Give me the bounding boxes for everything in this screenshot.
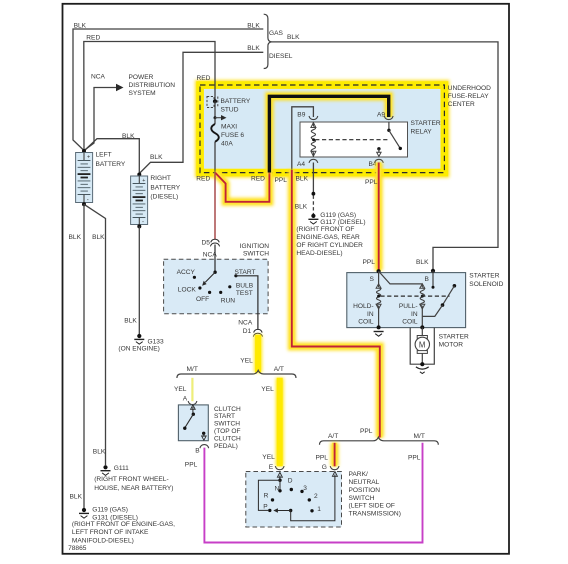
- svg-text:78865: 78865: [68, 545, 87, 552]
- svg-text:BATTERY: BATTERY: [150, 184, 180, 191]
- clutch A terminal arc: [188, 401, 197, 405]
- svg-text:N: N: [275, 486, 280, 493]
- park/neutral internals: [258, 472, 337, 521]
- svg-text:BLK: BLK: [247, 23, 260, 30]
- svg-text:+: +: [87, 155, 90, 161]
- wire NCA to power distribution: [84, 73, 124, 150]
- wire PPL from relay B9 down through box: [275, 107, 380, 438]
- svg-text:BLK: BLK: [416, 259, 429, 266]
- svg-text:FUSE 6: FUSE 6: [221, 132, 244, 139]
- svg-text:SWITCH: SWITCH: [243, 250, 269, 257]
- svg-text:HOLD-: HOLD-: [353, 303, 374, 310]
- svg-text:D1: D1: [243, 328, 252, 335]
- svg-text:RIGHT: RIGHT: [150, 175, 171, 182]
- wire RED left battery to battery stud: [84, 35, 215, 151]
- wire RED fuse box to ignition switch D5: [214, 173, 216, 240]
- wire BLK brace to starter solenoid B: [271, 34, 498, 270]
- svg-text:BULB: BULB: [236, 282, 254, 289]
- svg-text:LEFT FRONT OF INTAKE: LEFT FRONT OF INTAKE: [72, 529, 149, 536]
- park/neutral G terminal arc: [330, 466, 339, 470]
- ground G111: [94, 465, 173, 492]
- svg-text:P: P: [263, 504, 268, 511]
- svg-text:M: M: [419, 340, 426, 349]
- maxi fuse 6: [211, 118, 244, 173]
- brace gas/diesel: [264, 14, 293, 68]
- svg-text:START: START: [214, 413, 235, 420]
- svg-text:PULL-: PULL-: [399, 303, 418, 310]
- svg-text:3: 3: [303, 485, 307, 492]
- svg-text:G111: G111: [114, 465, 129, 472]
- svg-text:G117 (DIESEL): G117 (DIESEL): [320, 219, 365, 226]
- battery stud: [207, 97, 251, 114]
- relay dashed link: [315, 139, 390, 141]
- wire YEL D1 to M/T A/T brace: [240, 335, 258, 373]
- svg-text:OFF: OFF: [196, 296, 209, 303]
- svg-text:(ON ENGINE): (ON ENGINE): [118, 346, 159, 353]
- svg-text:BLK: BLK: [122, 133, 135, 140]
- svg-text:LEFT: LEFT: [96, 151, 112, 158]
- svg-text:G119 (GAS): G119 (GAS): [92, 506, 128, 513]
- svg-text:S: S: [370, 276, 375, 283]
- wire BLK left battery to G119/G131 ground: [69, 204, 85, 508]
- starter motor ground: [416, 367, 429, 374]
- svg-text:IN: IN: [367, 311, 374, 318]
- svg-text:RUN: RUN: [221, 298, 236, 305]
- svg-text:BLK: BLK: [296, 175, 309, 182]
- solenoid B terminal: [425, 269, 436, 283]
- svg-text:-: -: [142, 219, 144, 225]
- svg-text:POSITION: POSITION: [349, 487, 381, 494]
- svg-text:D: D: [288, 478, 293, 485]
- park/neutral E terminal arc: [275, 466, 284, 470]
- svg-text:NEUTRAL: NEUTRAL: [349, 479, 380, 486]
- park/neutral position switch box: [246, 471, 401, 527]
- svg-text:(TOP OF: (TOP OF: [214, 428, 241, 435]
- svg-text:PPL: PPL: [360, 428, 373, 435]
- ground G119 (GAS) G117 (DIESEL): [296, 212, 365, 257]
- label POWER DISTRIBUTION SYSTEM: [129, 74, 176, 97]
- svg-text:UNDERHOOD: UNDERHOOD: [448, 85, 491, 92]
- svg-text:OF RIGHT CYLINDER: OF RIGHT CYLINDER: [296, 242, 363, 249]
- svg-text:YEL: YEL: [240, 358, 253, 365]
- stud output arrow: [214, 101, 227, 120]
- underhood fuse-relay center box: [200, 85, 444, 173]
- svg-text:POWER: POWER: [129, 74, 154, 81]
- svg-text:HOUSE, NEAR BATTERY): HOUSE, NEAR BATTERY): [94, 485, 173, 492]
- svg-text:SWITCH: SWITCH: [214, 421, 240, 428]
- svg-text:NCA: NCA: [91, 73, 106, 80]
- svg-text:PPL: PPL: [363, 259, 376, 266]
- svg-text:CLUTCH: CLUTCH: [214, 435, 241, 442]
- svg-text:FUSE-RELAY: FUSE-RELAY: [448, 93, 490, 100]
- solenoid dashed link: [380, 295, 449, 297]
- svg-text:A9: A9: [377, 112, 385, 119]
- right battery (diesel): [131, 173, 181, 229]
- svg-text:STUD: STUD: [221, 106, 239, 113]
- connector D5: [202, 239, 220, 258]
- svg-text:+: +: [142, 178, 145, 184]
- wire BLK right battery to G133 ground: [124, 226, 139, 334]
- svg-text:STARTER: STARTER: [469, 273, 499, 280]
- svg-text:A4: A4: [297, 161, 305, 168]
- wire PPL A/T branch to park/neutral G: [316, 443, 335, 471]
- brace M/T A/T (ignition output split): [177, 366, 296, 378]
- svg-text:B9: B9: [297, 112, 305, 119]
- svg-text:B: B: [425, 276, 430, 283]
- svg-text:R: R: [264, 493, 269, 500]
- solenoid contact switch: [422, 271, 456, 317]
- svg-text:BLK: BLK: [93, 448, 106, 455]
- svg-text:A: A: [183, 395, 188, 402]
- connector D1: [243, 328, 263, 337]
- svg-text:D5: D5: [202, 239, 211, 246]
- svg-text:CENTER: CENTER: [448, 101, 475, 108]
- svg-text:A/T: A/T: [328, 433, 338, 440]
- svg-text:PPL: PPL: [365, 179, 378, 186]
- svg-text:MANIFOLD-DIESEL): MANIFOLD-DIESEL): [72, 537, 134, 544]
- svg-text:STARTER: STARTER: [411, 120, 441, 127]
- wire YEL A/T branch to park/neutral E: [261, 378, 279, 471]
- svg-text:IGNITION: IGNITION: [240, 243, 270, 250]
- svg-text:G133: G133: [148, 338, 164, 345]
- relay terminal B9: [297, 112, 318, 120]
- wire BLK left battery to G111 ground: [84, 204, 106, 465]
- svg-text:PEDAL): PEDAL): [214, 443, 238, 450]
- left battery: [76, 149, 126, 206]
- svg-text:ENGINE-GAS, REAR: ENGINE-GAS, REAR: [296, 234, 360, 241]
- relay coil: [311, 122, 316, 157]
- brace A/T M/T (ppl merge): [320, 433, 439, 445]
- svg-text:PPL: PPL: [275, 177, 288, 184]
- svg-text:BLK: BLK: [74, 23, 87, 30]
- svg-text:BLK: BLK: [92, 234, 105, 241]
- border frame: [63, 4, 510, 554]
- svg-text:DISTRIBUTION: DISTRIBUTION: [129, 82, 176, 89]
- svg-text:CLUTCH: CLUTCH: [214, 406, 241, 413]
- svg-text:RED: RED: [251, 175, 265, 182]
- svg-text:YEL: YEL: [262, 454, 275, 461]
- svg-text:START: START: [235, 269, 256, 276]
- svg-text:M/T: M/T: [414, 433, 425, 440]
- solenoid hold-in coil: [353, 271, 381, 329]
- svg-text:MOTOR: MOTOR: [439, 342, 464, 349]
- svg-text:STARTER: STARTER: [439, 334, 469, 341]
- svg-text:(RIGHT FRONT OF ENGINE-GAS,: (RIGHT FRONT OF ENGINE-GAS,: [72, 521, 175, 528]
- svg-text:TRANSMISSION): TRANSMISSION): [349, 511, 401, 518]
- svg-text:(DIESEL): (DIESEL): [150, 194, 178, 201]
- svg-text:PPL: PPL: [316, 455, 329, 462]
- svg-text:BLK: BLK: [247, 45, 260, 52]
- svg-text:NCA: NCA: [238, 320, 253, 327]
- svg-text:RED: RED: [197, 75, 211, 82]
- relay switch contacts: [377, 122, 402, 156]
- solenoid S ground: [374, 332, 384, 337]
- svg-text:-: -: [87, 198, 89, 204]
- svg-text:2: 2: [314, 493, 318, 500]
- svg-text:COIL: COIL: [402, 318, 418, 325]
- svg-text:SYSTEM: SYSTEM: [129, 90, 156, 97]
- svg-text:M/T: M/T: [187, 366, 198, 373]
- svg-text:YEL: YEL: [174, 386, 187, 393]
- svg-text:SWITCH: SWITCH: [349, 495, 375, 502]
- ground G119/G131: [72, 506, 175, 544]
- solenoid S terminal: [370, 269, 381, 283]
- wire BLK left battery to gas brace: [73, 23, 263, 151]
- svg-text:COIL: COIL: [358, 318, 374, 325]
- relay terminal A4: [297, 159, 318, 168]
- relay terminal A9: [377, 112, 393, 120]
- svg-text:BATTERY: BATTERY: [96, 161, 126, 168]
- svg-text:A/T: A/T: [274, 366, 284, 373]
- label UNDERHOOD FUSE-RELAY CENTER: [448, 85, 491, 108]
- svg-text:(LEFT SIDE OF: (LEFT SIDE OF: [349, 503, 395, 510]
- svg-text:PPL: PPL: [185, 462, 198, 469]
- svg-text:MAXI: MAXI: [221, 124, 237, 131]
- svg-text:IN: IN: [411, 311, 418, 318]
- wire BLK jumper left battery to right battery: [85, 133, 140, 173]
- relay terminal B4: [369, 159, 384, 168]
- ignition switch internals: [177, 245, 256, 305]
- svg-text:BLK: BLK: [287, 34, 300, 41]
- wire PPL relay B4 to solenoid S: [363, 163, 379, 271]
- starter motor: [410, 327, 469, 366]
- svg-text:RED: RED: [196, 175, 210, 182]
- wire PPL clutch B down around to M/T merge: [185, 443, 423, 543]
- svg-text:B: B: [195, 448, 200, 455]
- svg-text:PPL: PPL: [408, 455, 421, 462]
- starter relay: [300, 120, 441, 157]
- ignition switch box: [164, 243, 270, 314]
- svg-text:BLK: BLK: [150, 154, 163, 161]
- ground G133: [118, 334, 164, 353]
- svg-text:SOLENOID: SOLENOID: [469, 281, 503, 288]
- svg-text:TEST: TEST: [236, 290, 253, 297]
- thick black feed wire to relay A9: [269, 96, 388, 172]
- wire BLK relay A4 to ground G119/G117: [295, 163, 316, 215]
- starter solenoid box: [347, 273, 504, 328]
- highlighted red jog below fuse box: [196, 173, 269, 202]
- svg-text:(RIGHT FRONT OF: (RIGHT FRONT OF: [296, 226, 354, 233]
- svg-text:1: 1: [317, 506, 321, 513]
- svg-text:(RIGHT FRONT WHEEL-: (RIGHT FRONT WHEEL-: [94, 476, 169, 483]
- clutch start switch: [178, 405, 241, 450]
- wire YEL M/T branch to clutch switch A: [174, 378, 192, 403]
- solenoid pull-in coil: [379, 271, 425, 329]
- svg-text:GAS: GAS: [269, 30, 284, 37]
- svg-text:BLK: BLK: [124, 318, 137, 325]
- svg-text:YEL: YEL: [261, 386, 274, 393]
- svg-text:RED: RED: [86, 35, 100, 42]
- wire NCA start output to D1: [236, 276, 258, 330]
- svg-text:HEAD-DIESEL): HEAD-DIESEL): [296, 250, 342, 257]
- clutch B terminal arc: [195, 445, 208, 455]
- svg-text:BLK: BLK: [69, 234, 82, 241]
- svg-text:G119 (GAS): G119 (GAS): [320, 212, 356, 219]
- svg-text:RELAY: RELAY: [411, 128, 433, 135]
- svg-text:G: G: [322, 464, 327, 471]
- wire BLK right battery to diesel brace: [139, 45, 263, 174]
- svg-text:LOCK: LOCK: [178, 286, 197, 293]
- svg-text:BLK: BLK: [70, 494, 83, 501]
- svg-text:BATTERY: BATTERY: [221, 98, 251, 105]
- svg-text:E: E: [269, 464, 274, 471]
- svg-text:BLK: BLK: [295, 204, 308, 211]
- svg-text:ACCY: ACCY: [177, 269, 196, 276]
- svg-text:DIESEL: DIESEL: [269, 53, 293, 60]
- svg-text:40A: 40A: [221, 141, 233, 148]
- svg-text:PARK/: PARK/: [349, 471, 368, 478]
